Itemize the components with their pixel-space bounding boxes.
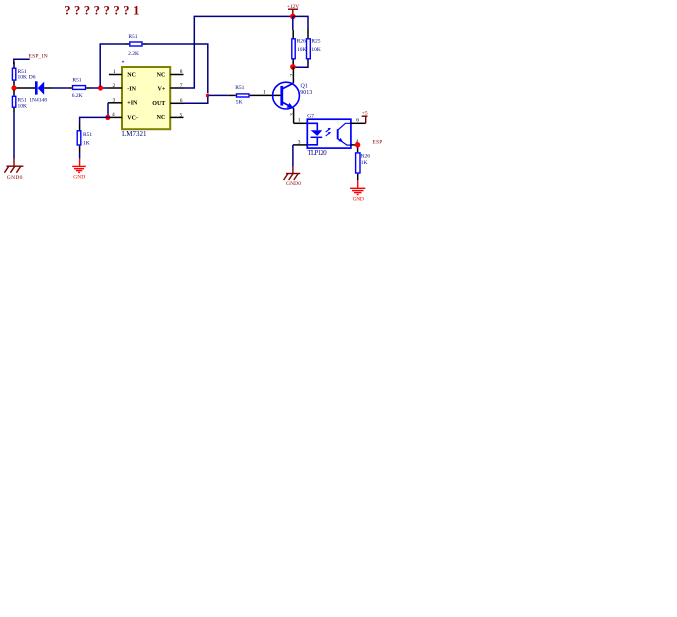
- wire feedback riser left: [100, 44, 125, 87]
- node junction J7: [355, 142, 360, 147]
- resistor R51 10K (bottom left): [13, 90, 15, 96]
- wire OUT riser: [184, 97, 208, 104]
- svg-text:10K: 10K: [18, 103, 28, 109]
- pin 8 NC stub: [170, 74, 183, 76]
- LED inside opto: [308, 123, 317, 130]
- svg-text:10K: 10K: [297, 47, 307, 53]
- svg-text:1: 1: [113, 69, 116, 75]
- svg-text:GND0: GND0: [7, 175, 23, 181]
- svg-text:1K: 1K: [361, 160, 368, 166]
- svg-text:R51: R51: [72, 77, 81, 83]
- svg-text:NC: NC: [157, 115, 166, 121]
- pin 6 stub: [351, 122, 366, 124]
- resistor R51 2.2K: [125, 43, 129, 45]
- pin 3 +IN stub: [108, 102, 122, 104]
- optocoupler G7 TLP120 body: [307, 119, 351, 148]
- svg-text:1: 1: [298, 118, 301, 124]
- svg-text:G7: G7: [307, 114, 314, 120]
- pin 7 V+ stub: [170, 87, 183, 89]
- svg-text:4: 4: [112, 112, 115, 118]
- svg-text:10K: 10K: [311, 47, 321, 53]
- node junction J6: [290, 64, 296, 70]
- svg-text:Q1: Q1: [301, 84, 308, 90]
- svg-text:LM7321: LM7321: [122, 130, 147, 138]
- svg-text:1K: 1K: [83, 140, 90, 146]
- pin names inside IC: [127, 72, 166, 121]
- node junction J1: [11, 85, 16, 90]
- svg-text:R51: R51: [235, 85, 244, 91]
- wire base row from J4: [209, 94, 229, 96]
- svg-text:6: 6: [180, 98, 183, 104]
- power +12V: [292, 9, 294, 15]
- resistor R26 10K: [292, 30, 294, 38]
- svg-text:V+: V+: [158, 87, 166, 93]
- svg-text:10K: 10K: [18, 75, 28, 81]
- wire 6.2K to J2: [91, 87, 108, 89]
- svg-text:1: 1: [263, 89, 266, 95]
- svg-text:6.2K: 6.2K: [72, 93, 83, 99]
- wire emitter down to opto: [293, 108, 295, 123]
- wire rail to R25: [293, 16, 308, 28]
- node junction J5: [290, 14, 296, 20]
- resistor R51 6.2K: [68, 87, 72, 89]
- svg-text:8: 8: [180, 69, 183, 75]
- pin 1 NC stub: [109, 74, 122, 76]
- resistor R51 1K: [77, 131, 81, 145]
- svg-text:NC: NC: [157, 73, 166, 79]
- svg-text:GND: GND: [353, 197, 364, 203]
- svg-text:3: 3: [113, 97, 116, 103]
- node junction J3: [105, 115, 110, 120]
- wire ESP_IN stub: [14, 59, 30, 64]
- svg-text:6: 6: [356, 118, 359, 124]
- svg-text:2: 2: [289, 74, 295, 77]
- wire +12V down to R26: [292, 16, 294, 30]
- phototransistor inside opto: [337, 129, 339, 139]
- wire V+ to +12V rail: [184, 16, 293, 88]
- svg-text:R51: R51: [128, 34, 137, 40]
- ground GND0 (right): [284, 174, 301, 181]
- svg-text:+12V: +12V: [287, 4, 299, 10]
- svg-text:+5: +5: [362, 111, 368, 117]
- svg-text:ESP: ESP: [372, 140, 382, 146]
- svg-text:NC: NC: [127, 72, 136, 78]
- svg-text:3: 3: [289, 113, 295, 116]
- wire diode to R51 6.2K: [52, 87, 68, 89]
- svg-text:2: 2: [113, 83, 116, 89]
- svg-text:9013: 9013: [300, 90, 312, 96]
- svg-text:2.2K: 2.2K: [128, 51, 139, 57]
- node junction J4 (square): [206, 94, 209, 97]
- svg-text:R51: R51: [83, 132, 92, 138]
- pin 4 VC- stub: [110, 116, 122, 118]
- resistor R51 5K: [229, 94, 236, 96]
- light arrows: [326, 129, 329, 132]
- transistor Q1 9013: [273, 82, 300, 109]
- svg-text:R25: R25: [311, 39, 320, 45]
- svg-text:ESP_IN: ESP_IN: [29, 54, 48, 60]
- pin 6 OUT stub: [170, 102, 183, 104]
- ground GND (right red): [350, 188, 365, 194]
- pin 5 NC stub: [170, 116, 183, 118]
- svg-text:GND: GND: [73, 175, 85, 181]
- svg-text:1N4148: 1N4148: [29, 97, 47, 103]
- ground GND0 (left): [4, 166, 23, 173]
- wire feedback top to J4: [147, 44, 208, 94]
- svg-text:R26: R26: [297, 39, 306, 45]
- svg-text:VC-: VC-: [127, 116, 138, 122]
- svg-text:D6: D6: [29, 75, 36, 81]
- svg-text:+IN: +IN: [127, 101, 138, 107]
- wire +IN riser: [107, 103, 109, 118]
- svg-text:3: 3: [298, 139, 301, 145]
- diode D6 1N4148: [35, 81, 38, 94]
- node junction J2: [98, 85, 103, 90]
- resistor R51 10K (top left): [13, 62, 15, 68]
- op-amp U LM7321 body: [122, 67, 170, 129]
- power +5: [365, 116, 367, 123]
- resistor R26 1K (right): [357, 148, 359, 153]
- ground GND (left red): [72, 166, 86, 172]
- wire collector riser: [292, 67, 294, 83]
- wire to GND0 left: [13, 112, 15, 159]
- svg-text:5: 5: [180, 112, 183, 118]
- pin 4 stub: [351, 144, 358, 146]
- svg-text:OUT: OUT: [152, 101, 165, 107]
- pin 3 stub and wire to GND0: [293, 144, 307, 146]
- svg-text:-IN: -IN: [127, 87, 136, 93]
- pin 2 -IN stub: [108, 87, 123, 89]
- wire VC- to 1K: [80, 117, 110, 123]
- svg-text:? ? ? ? ? ? ? 1: ? ? ? ? ? ? ? 1: [64, 4, 139, 18]
- svg-text:TLP120: TLP120: [308, 150, 328, 157]
- wire J1 to diode: [17, 87, 36, 89]
- svg-text:GND0: GND0: [286, 181, 301, 187]
- svg-text:R26: R26: [361, 153, 370, 159]
- wire R25 bottom to J6: [295, 65, 308, 68]
- resistor R25 10K: [307, 28, 309, 38]
- svg-text:5K: 5K: [236, 100, 243, 106]
- svg-text:*: *: [122, 61, 125, 67]
- svg-text:7: 7: [180, 83, 183, 89]
